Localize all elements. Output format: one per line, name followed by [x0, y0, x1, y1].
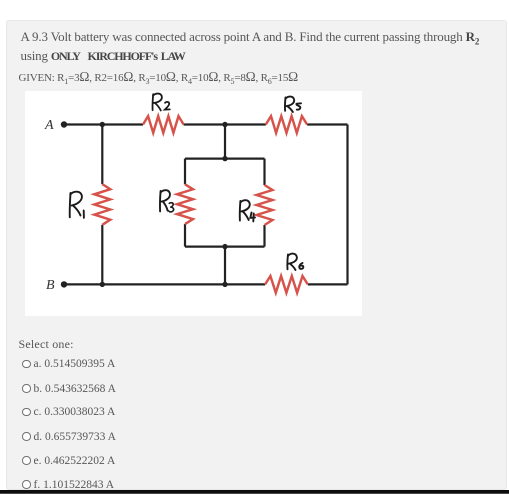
label R4: [240, 200, 255, 221]
label R1: [70, 192, 84, 218]
resistor R6: [265, 276, 308, 293]
inner box top: [185, 158, 265, 160]
wire top: R2 to R5: [184, 123, 266, 125]
junction inner-box-bottom: [222, 244, 227, 249]
resistor R2: [143, 116, 184, 133]
wire left branch R1: [101, 125, 103, 185]
resistor R3: [177, 184, 193, 224]
junction top-mid: [222, 122, 227, 127]
wire bottom: B to R6: [66, 283, 265, 285]
inner box bottom: [185, 246, 265, 248]
svg-text:A: A: [44, 118, 54, 133]
wire top: R5 to right corner: [307, 123, 347, 125]
inner box right segments: [263, 159, 265, 185]
wire mid connector top: [224, 125, 226, 159]
junction bottom-mid: [222, 282, 227, 287]
node A dot: [61, 121, 67, 127]
resistor R4: [257, 185, 273, 225]
wire mid connector bottom: [224, 247, 226, 285]
junction bottom-left: [100, 282, 105, 287]
junction top-left: [100, 122, 105, 127]
label R3: [160, 190, 174, 212]
inner box left segments: [184, 159, 186, 185]
svg-text:B: B: [46, 278, 55, 293]
resistor R1: [94, 184, 110, 225]
label R2: [153, 94, 170, 111]
label R6: [287, 254, 303, 270]
junction inner-box-top: [222, 156, 227, 161]
wire bottom: R6 to right corner: [308, 283, 348, 285]
node B dot: [61, 281, 67, 287]
wire top: A to R2: [66, 123, 143, 125]
resistor R5: [266, 116, 307, 133]
label R5: [285, 97, 301, 112]
wire right side down: [346, 125, 348, 285]
